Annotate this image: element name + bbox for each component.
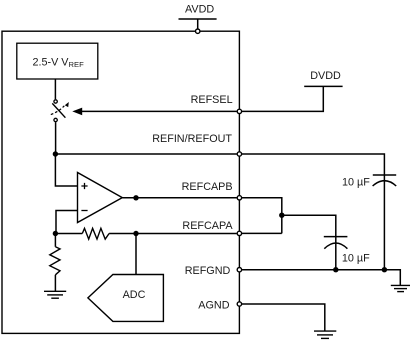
svg-text:DVDD: DVDD — [310, 70, 341, 82]
ground symbol right — [391, 285, 410, 291]
wire REFGND external — [242, 270, 400, 286]
wire REFCAPA left lead — [55, 233, 82, 235]
switch S1 — [51, 100, 69, 122]
wire R1 to node — [109, 233, 136, 235]
svg-text:REFCAPA: REFCAPA — [182, 220, 233, 232]
node junction left of R1 — [53, 231, 58, 236]
ground symbol below R2 — [44, 291, 66, 298]
svg-text:REFCAPB: REFCAPB — [182, 181, 233, 193]
wire op-amp output to REFCAPB pin — [122, 197, 237, 199]
resistor R2 vertical — [50, 247, 60, 275]
chip U1 outline — [2, 31, 239, 333]
pin REFSEL circle — [237, 109, 241, 113]
svg-text:2.5-V VREF: 2.5-V VREF — [33, 56, 85, 69]
wire VREF box to switch — [54, 79, 56, 99]
wire node to ADC — [135, 234, 137, 275]
node junction on REFCAP loop — [279, 213, 284, 218]
svg-text:AGND: AGND — [198, 300, 229, 312]
node junction at REFIN/REFOUT — [53, 151, 58, 156]
pin REFCAPB circle — [237, 196, 241, 200]
wire REFCAPA external — [242, 232, 282, 234]
wire AGND external — [242, 304, 325, 331]
wire op-amp - input feedback — [56, 211, 78, 234]
pin AGND circle — [237, 302, 241, 306]
wire switch to REFIN node — [55, 122, 57, 154]
svg-text:REFIN/REFOUT: REFIN/REFOUT — [152, 133, 232, 145]
wire REFCAPB external — [242, 198, 282, 234]
svg-text:10 µF: 10 µF — [342, 252, 370, 264]
node junction C1 REFGND — [382, 267, 387, 272]
svg-text:ADC: ADC — [123, 289, 146, 301]
pin REFCAPA circle — [237, 231, 241, 235]
pin AVDD circle — [196, 29, 200, 33]
wire C1 to REFGND — [383, 175, 385, 270]
wire node to op-amp + input — [55, 154, 77, 186]
power AVDD symbol — [179, 19, 217, 29]
wire node down to resistor R2 — [54, 234, 56, 247]
svg-text:REFGND: REFGND — [185, 265, 231, 277]
wire REFSEL internal — [82, 110, 237, 112]
wire REFCAPA internal — [136, 233, 237, 235]
wire REFIN/REFOUT external to C1 — [242, 154, 384, 175]
svg-text:REFSEL: REFSEL — [191, 94, 233, 106]
node junction on output — [133, 195, 138, 200]
op-amp U2 — [78, 173, 123, 223]
node junction C2 REFGND — [333, 267, 338, 272]
wire R2 to ground — [54, 275, 56, 292]
ground symbol AGND — [314, 331, 336, 338]
node junction at ADC tap — [133, 231, 138, 236]
wire branch to C2 — [282, 215, 336, 270]
resistor R1 horizontal — [82, 228, 109, 239]
block 2.5-V VREF — [17, 43, 98, 79]
power DVDD symbol — [304, 85, 342, 87]
REFSEL control arrowhead — [72, 108, 82, 116]
svg-text:10 µF: 10 µF — [342, 176, 370, 188]
capacitor C1 — [373, 175, 397, 186]
pin REFGND circle — [237, 268, 241, 272]
wire REFSEL external to DVDD — [242, 86, 323, 111]
wire REFIN/REFOUT internal — [55, 153, 236, 155]
block ADC — [88, 275, 163, 322]
svg-text:AVDD: AVDD — [185, 3, 214, 15]
pin REFIN/REFOUT circle — [237, 152, 241, 156]
capacitor C2 — [324, 237, 348, 249]
